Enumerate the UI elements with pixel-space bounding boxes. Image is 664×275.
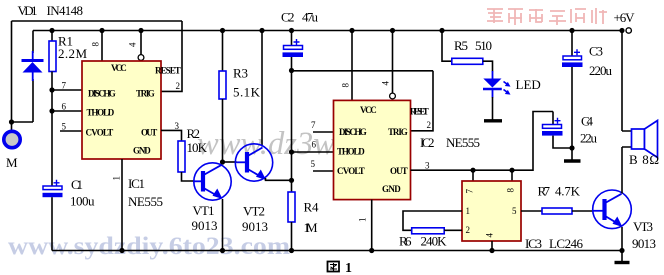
terminal +6V — [626, 28, 631, 33]
svg-text:TRIG: TRIG — [136, 89, 155, 99]
ground rail bottom — [52, 250, 622, 252]
wire R3 bottom to VT1 collector node — [222, 99, 224, 163]
wire C3 top lead — [571, 31, 573, 57]
wire pin 8 IC3 — [511, 170, 513, 181]
junction R3 top — [220, 28, 225, 33]
junction IC1 pin8 — [99, 28, 104, 33]
wire IC2 pin3 output line — [411, 112, 554, 171]
svg-text:+6V: +6V — [614, 10, 636, 25]
node: top signal rail (mic/diode to TRIG1) — [12, 21, 183, 122]
label R3 5.1K — [233, 66, 261, 100]
junction C3 rail — [569, 28, 574, 33]
junction IC2 pin1 ground — [369, 248, 374, 253]
wire R1 top lead — [51, 31, 53, 42]
svg-text:NE555: NE555 — [128, 194, 163, 209]
junction IC2 pin4 — [390, 28, 395, 33]
resistor R2 — [178, 141, 185, 172]
LED — [483, 71, 511, 98]
svg-text:RESET: RESET — [410, 107, 429, 117]
svg-text:6: 6 — [62, 102, 67, 112]
junction C3/C4 ground node — [569, 145, 574, 150]
svg-text:www.sydzdiy.6to23.com: www.sydzdiy.6to23.com — [8, 233, 290, 260]
svg-text:B 8Ω: B 8Ω — [629, 152, 659, 167]
transistor VT2 — [235, 144, 272, 181]
capacitor C1 — [43, 180, 63, 197]
wire TRIG1 drop — [161, 21, 182, 91]
svg-text:VT1: VT1 — [193, 203, 215, 218]
wire VT1 emitter to ground rail — [222, 199, 224, 251]
svg-text:2.2M: 2.2M — [58, 46, 87, 61]
svg-text:R6: R6 — [399, 234, 412, 249]
resistor R4 — [288, 192, 295, 222]
svg-text:1M: 1M — [304, 220, 318, 235]
ground stub C3 — [571, 148, 573, 160]
svg-text:8: 8 — [506, 188, 516, 193]
wire pin 7 IC3 — [472, 170, 474, 181]
svg-text:VT2: VT2 — [243, 204, 265, 219]
svg-text:240K: 240K — [421, 234, 448, 249]
junction VT2 emitter node — [289, 178, 294, 183]
svg-text:THOLD: THOLD — [337, 147, 365, 157]
wire left vertical — [11, 21, 13, 122]
junction VT1 collector / VT2 base — [220, 159, 225, 164]
svg-text:R4: R4 — [304, 200, 320, 215]
svg-text:2: 2 — [466, 225, 471, 235]
svg-text:VT3: VT3 — [633, 219, 653, 234]
wire VT2 emitter to R4 node — [266, 178, 292, 180]
wire node to TRIG2 (horizontal) — [292, 70, 434, 72]
junction THOLD2 — [289, 149, 294, 154]
svg-text:220u: 220u — [589, 63, 613, 78]
svg-text:4: 4 — [128, 42, 138, 47]
wire IC3 pin5 to R7 — [521, 210, 542, 212]
wire pin 6 IC2 — [292, 151, 334, 153]
speaker B — [622, 121, 658, 158]
wire R1 bottom to pins 7/6 and C1 — [51, 72, 53, 187]
svg-text:OUT: OUT — [141, 128, 158, 138]
svg-text:510: 510 — [475, 38, 492, 53]
label R2 10K — [187, 126, 208, 155]
resistor R7 — [542, 208, 572, 214]
junction pin6 — [49, 108, 54, 113]
junction pin7 — [49, 87, 54, 92]
ground bar under LED — [484, 119, 502, 122]
svg-text:2: 2 — [176, 81, 181, 91]
watermark red CJK top right — [487, 8, 607, 25]
junction R4 ground — [289, 248, 294, 253]
wire pin 6 IC1 — [52, 110, 82, 112]
svg-text:LED: LED — [516, 77, 541, 92]
svg-text:3: 3 — [175, 121, 180, 131]
svg-text:5: 5 — [311, 159, 316, 169]
svg-text:TRIG: TRIG — [388, 127, 408, 137]
wire C4 top lead — [552, 112, 554, 125]
pin 4 inverter circle IC1 — [138, 55, 144, 61]
ground stub VT3 — [621, 251, 623, 262]
caption 图 1 — [328, 261, 353, 275]
junction IC2 pin8 — [349, 28, 354, 33]
wire rail to speaker — [621, 31, 623, 132]
svg-text:VCC: VCC — [111, 63, 127, 73]
ground bar VT3 — [615, 261, 630, 264]
junction C2 top rail — [289, 28, 294, 33]
pin digits IC2 — [311, 120, 432, 222]
wire R6 to IC3 pin2 — [444, 229, 462, 231]
svg-text:R5: R5 — [454, 38, 468, 53]
label VT2 9013 — [242, 204, 268, 235]
svg-text:4: 4 — [485, 233, 495, 238]
wire IC3 pin1 to R6 loop — [403, 211, 462, 230]
svg-text:LC246: LC246 — [549, 236, 584, 251]
svg-text:CVOLT: CVOLT — [86, 128, 114, 138]
svg-text:47u: 47u — [302, 10, 319, 25]
pin digits IC1 — [62, 81, 181, 181]
watermark www.sydzdiy.6to23.com — [8, 233, 290, 260]
svg-text:7: 7 — [62, 81, 67, 91]
wire C1 bottom to ground rail — [51, 197, 53, 250]
wire VT2 collector — [261, 31, 263, 147]
wire C2 bottom to node — [291, 57, 293, 71]
wire top rail — [12, 20, 183, 22]
svg-text:4: 4 — [381, 81, 391, 86]
+6V rail — [33, 30, 622, 32]
label C4 22u — [580, 114, 598, 146]
svg-text:IC2: IC2 — [420, 135, 435, 150]
svg-text:5: 5 — [512, 206, 517, 216]
wire pin 7 stub IC2 — [313, 131, 334, 133]
wire R4 bottom to ground rail — [291, 222, 293, 251]
svg-text:8: 8 — [341, 83, 351, 88]
junction R5 rail — [439, 28, 444, 33]
wire C4 bottom to ground node — [553, 136, 572, 148]
svg-text:R2: R2 — [187, 126, 201, 141]
ground bar C3 — [564, 159, 581, 162]
pin digits IC3 — [465, 188, 518, 238]
svg-text:R7: R7 — [538, 184, 551, 199]
wire R3 top lead — [222, 31, 224, 72]
wire pin 8 IC2 — [351, 31, 353, 101]
label R1 2.2M — [58, 34, 87, 62]
junction mic node — [9, 119, 14, 124]
resistor R6 — [412, 228, 445, 234]
IC1 internal labels — [86, 63, 182, 156]
capacitor C2 — [283, 39, 304, 57]
svg-text:10K: 10K — [187, 140, 208, 155]
wire node down to THOLD2/R4 — [291, 71, 293, 193]
wire IC1 pin3 to R2 — [161, 130, 182, 141]
resistor R1 — [49, 41, 56, 72]
svg-text:R3: R3 — [233, 66, 248, 81]
wire rail to diode — [32, 31, 34, 123]
svg-text:C1: C1 — [71, 177, 83, 192]
svg-text:C4: C4 — [581, 114, 594, 129]
wire pin 5 stub IC2 — [313, 170, 334, 172]
music-chip IC3 LC246 body — [462, 181, 521, 241]
svg-text:9013: 9013 — [242, 219, 268, 234]
svg-text:IC1: IC1 — [128, 176, 145, 191]
op-amp-block IC2 NE555 body — [334, 100, 411, 199]
junction IC3 pin7 — [470, 168, 475, 173]
capacitor C4 — [542, 118, 563, 136]
label C1 100u — [70, 177, 95, 209]
wire C3 bottom to ground node — [571, 67, 573, 148]
wire IC1 pin1 to ground rail — [121, 159, 123, 251]
svg-text:RESET: RESET — [155, 66, 181, 76]
wire R2 to VT1 base — [182, 172, 195, 181]
svg-text:4.7K: 4.7K — [555, 184, 581, 199]
svg-text:IC3: IC3 — [525, 236, 542, 251]
svg-text:VCC: VCC — [360, 105, 377, 115]
svg-text:CVOLT: CVOLT — [337, 166, 365, 176]
label C3 220u — [589, 44, 613, 79]
junction R1 top — [49, 28, 54, 33]
resistor R5 — [452, 58, 483, 64]
microphone M — [4, 122, 20, 148]
wire to VT2 base — [223, 161, 237, 163]
svg-text:VD1: VD1 — [18, 3, 38, 18]
wire IC2 pin1 to ground rail — [371, 200, 373, 251]
label VT1 9013 — [192, 203, 218, 233]
wire R7 to VT3 base — [572, 210, 593, 212]
junction VT3 emitter ground — [619, 248, 624, 253]
svg-text:8: 8 — [91, 42, 101, 47]
wire pin 5 stub IC1 — [60, 130, 82, 132]
junction C2 bottom node — [289, 68, 294, 73]
label R4 1M — [304, 200, 320, 236]
svg-text:5.1K: 5.1K — [233, 85, 261, 100]
svg-text:22u: 22u — [580, 131, 598, 146]
wire pin 4 IC1 — [140, 31, 142, 55]
resistor R3 — [219, 71, 226, 99]
wire pin 7 IC1 — [52, 89, 82, 91]
svg-text:9013: 9013 — [192, 218, 218, 233]
svg-text:7: 7 — [465, 189, 475, 194]
capacitor C3 — [562, 49, 583, 67]
svg-text:GND: GND — [382, 184, 401, 194]
svg-text:IN4148: IN4148 — [47, 3, 84, 18]
junction IC3 pin8 — [509, 168, 514, 173]
watermark www.dz3w.com — [197, 126, 395, 162]
svg-text:OUT: OUT — [390, 166, 408, 176]
junction IC1 pin4 — [138, 28, 143, 33]
wire R5 to LED — [483, 61, 493, 71]
svg-text:5: 5 — [62, 122, 67, 132]
svg-text:DISCHG: DISCHG — [88, 89, 116, 99]
IC2 internal labels — [337, 105, 429, 194]
svg-text:THOLD: THOLD — [87, 108, 115, 118]
wire LED to ground bar — [492, 97, 494, 120]
svg-text:C3: C3 — [589, 44, 603, 59]
wire mic node to diode — [12, 121, 34, 123]
label VT3 9013 — [632, 219, 656, 251]
op-amp-block IC1 NE555 body — [82, 61, 161, 159]
wire TRIG2 drop — [411, 71, 434, 131]
svg-text:GND: GND — [133, 146, 151, 156]
svg-text:7: 7 — [311, 120, 316, 130]
svg-text:C2: C2 — [281, 10, 295, 25]
svg-text:DISCHG: DISCHG — [339, 127, 367, 137]
wire C2 top lead — [291, 31, 293, 46]
svg-text:3: 3 — [425, 161, 430, 171]
svg-text:2: 2 — [427, 120, 432, 130]
junction speaker rail — [619, 28, 624, 33]
svg-text:6: 6 — [312, 140, 317, 150]
wire rail to R5 — [442, 31, 452, 62]
svg-text:100u: 100u — [70, 194, 95, 209]
transistor VT1 — [194, 163, 231, 200]
junction VT2 collector rail — [259, 28, 264, 33]
wire VT3 emitter to ground — [621, 227, 623, 251]
wire pin 4 IC2 — [392, 31, 394, 94]
diode VD1 — [22, 51, 44, 81]
junction pin1 ground — [119, 248, 124, 253]
transistor VT3 — [593, 190, 632, 229]
svg-text:1: 1 — [345, 261, 352, 275]
svg-text:1: 1 — [358, 218, 368, 223]
svg-text:1: 1 — [112, 176, 122, 181]
junction VT1 emitter ground — [220, 248, 225, 253]
pin 4 inverter circle IC2 — [390, 93, 396, 99]
wire speaker to VT3 collector — [621, 147, 623, 194]
svg-text:1: 1 — [466, 206, 471, 216]
svg-text:NE555: NE555 — [446, 135, 480, 150]
junction IC3 pin4 ground — [489, 248, 494, 253]
svg-text:M: M — [6, 155, 18, 170]
svg-text:9013: 9013 — [632, 236, 656, 251]
wire pin 8 IC1 — [101, 31, 103, 62]
wire IC3 pin4 to ground rail — [491, 241, 493, 251]
